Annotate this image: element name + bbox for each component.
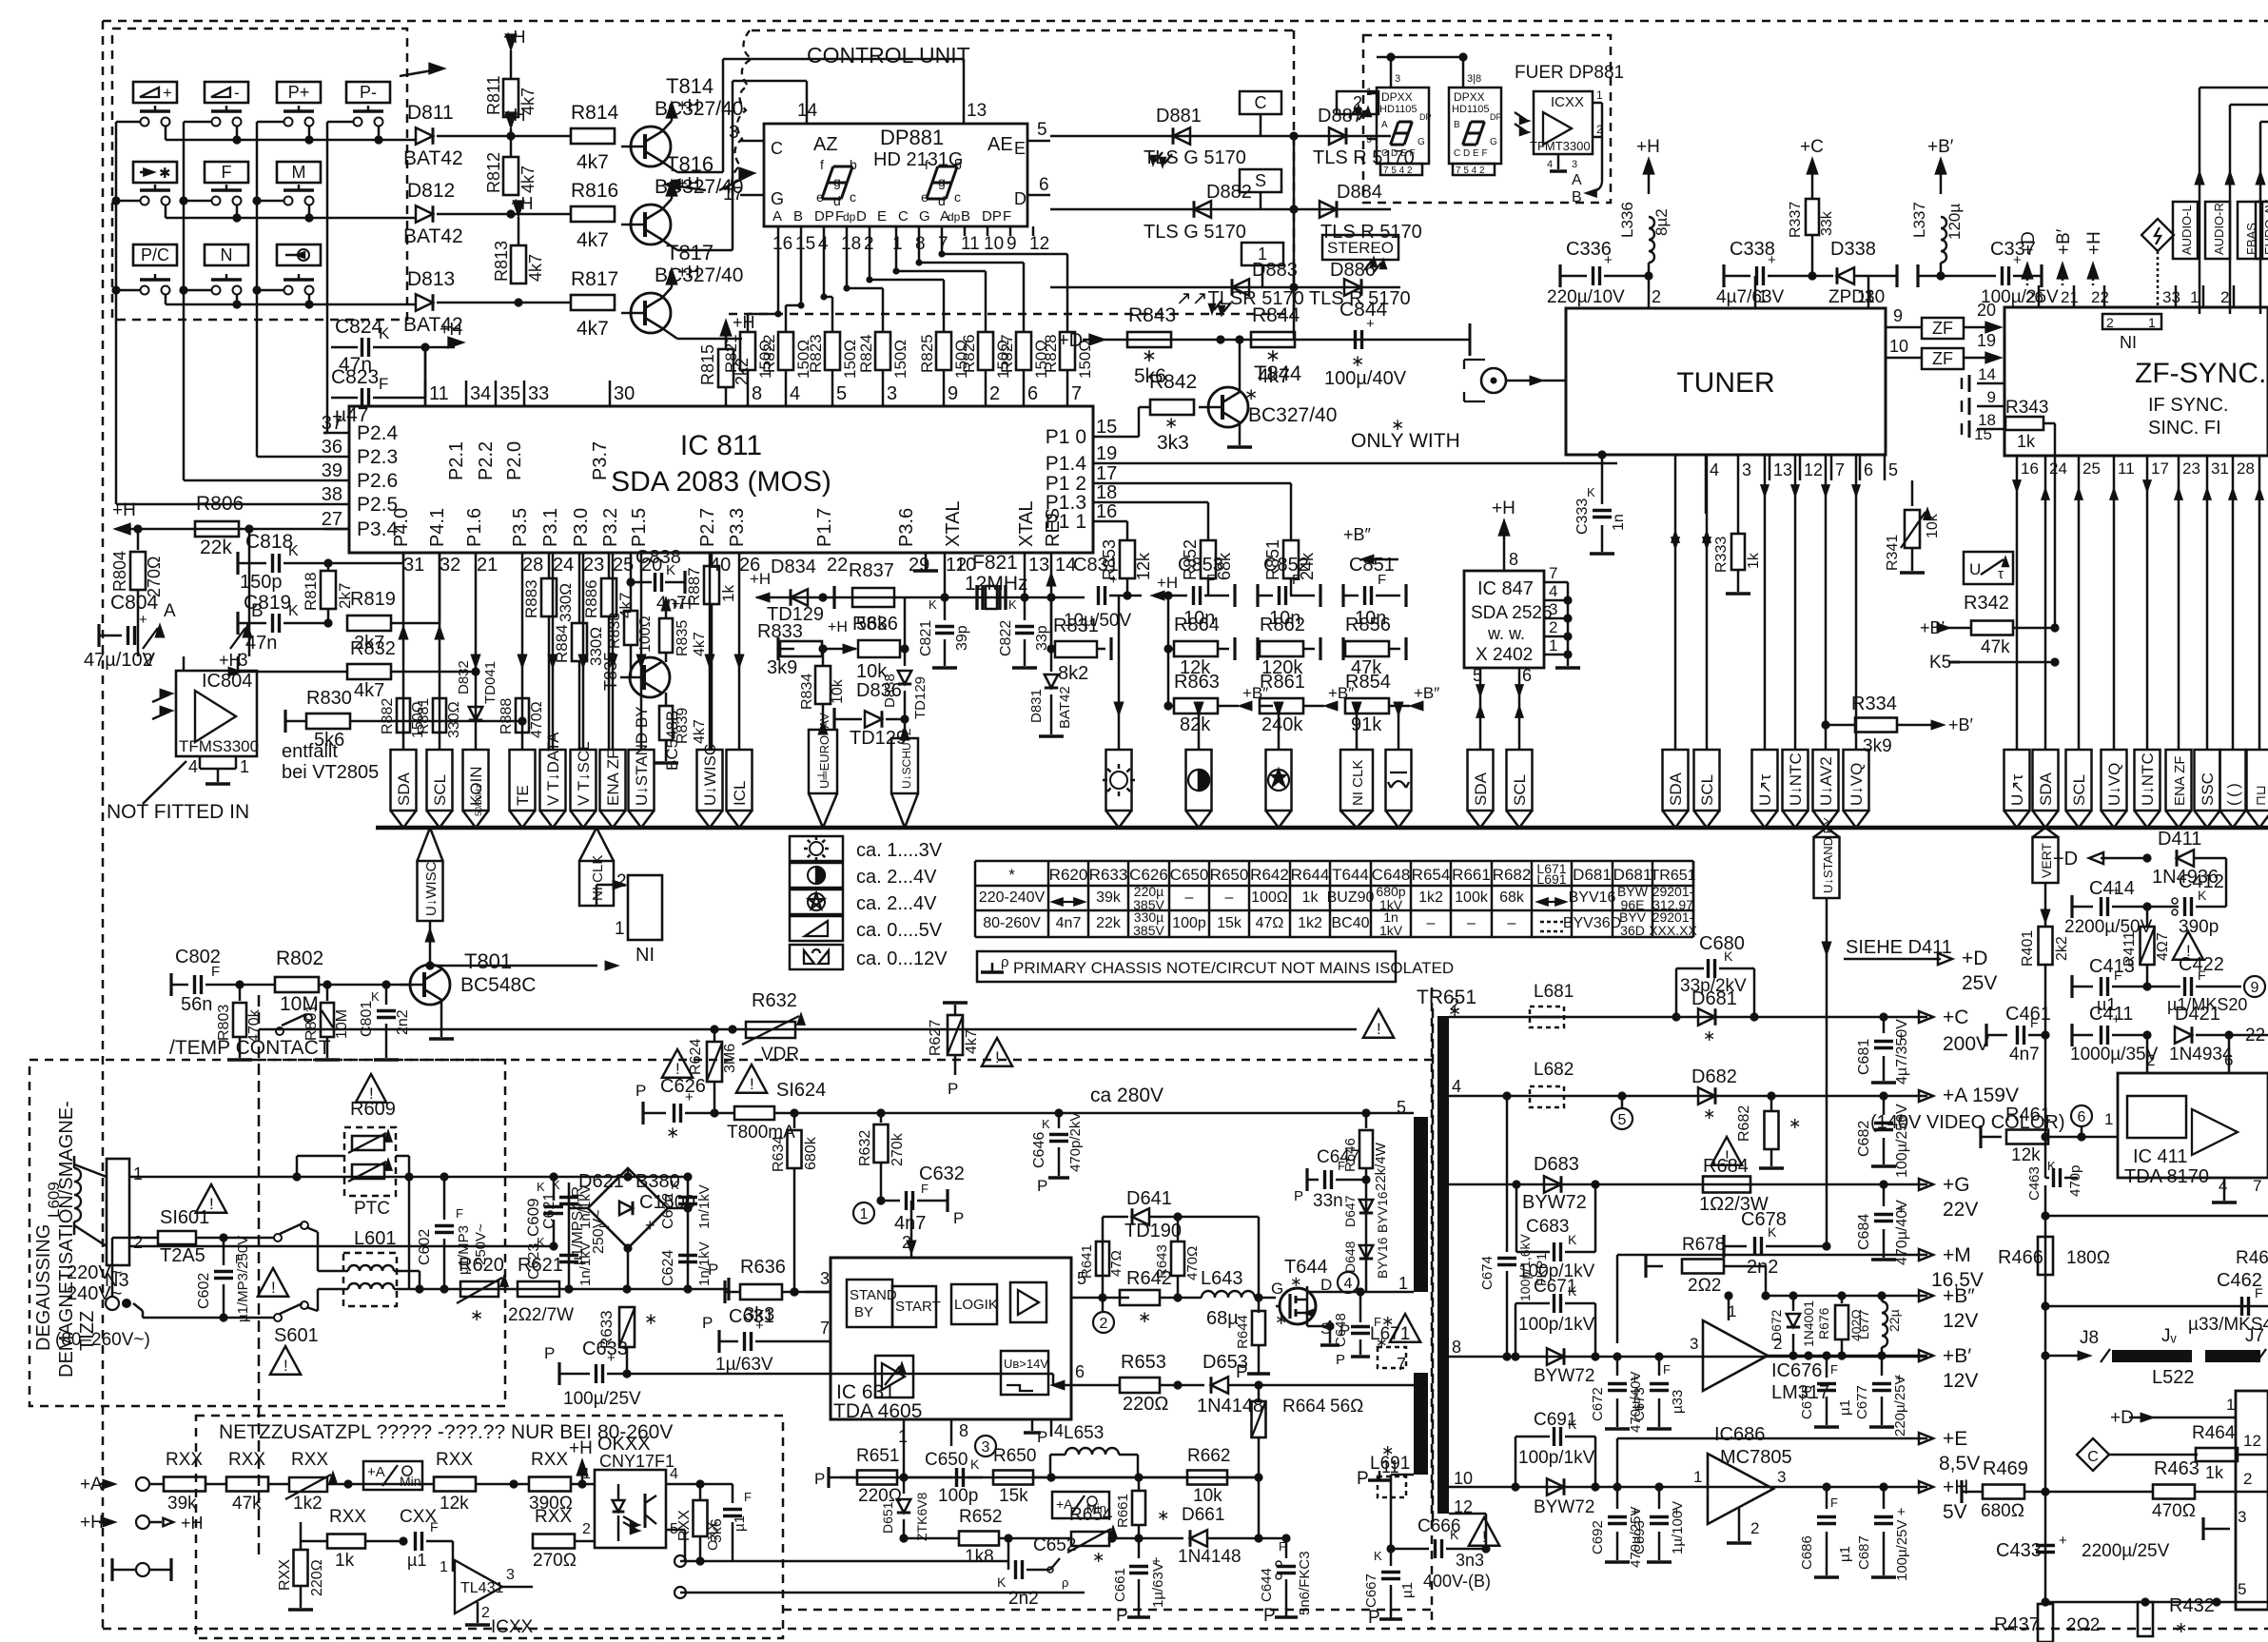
svg-text:P+: P+ <box>288 83 310 102</box>
svg-text:L677: L677 <box>1856 1310 1871 1339</box>
component table <box>975 860 1693 863</box>
svg-text:38: 38 <box>322 484 342 505</box>
DP881 pin 17 <box>740 194 764 197</box>
audio tags <box>2173 202 2198 259</box>
svg-text:P1 1: P1 1 <box>1046 511 1086 533</box>
svg-text:R342: R342 <box>1964 593 2009 614</box>
svg-text:9: 9 <box>1987 388 1996 406</box>
capacitor C682 <box>1879 1091 1887 1100</box>
resistor R684 <box>1711 1137 1742 1165</box>
svg-text:240k: 240k <box>1261 714 1303 735</box>
node tag SDA mid <box>1468 750 1494 811</box>
svg-text:BYV16: BYV16 <box>1569 889 1616 906</box>
svg-text:+H: +H <box>503 28 526 47</box>
svg-text:R676: R676 <box>1816 1307 1831 1339</box>
svg-text:C626: C626 <box>1129 866 1168 884</box>
svg-text:DP: DP <box>1490 112 1502 122</box>
svg-text:1: 1 <box>615 919 625 939</box>
svg-text:ZF: ZF <box>1932 349 1953 368</box>
svg-text:4n7: 4n7 <box>1056 915 1082 931</box>
svg-text:35: 35 <box>499 383 520 404</box>
svg-text:2200µ/25V: 2200µ/25V <box>2082 1541 2170 1561</box>
svg-text:✱: ✱ <box>159 166 171 182</box>
svg-text:32: 32 <box>440 555 460 576</box>
capacitor C821 <box>944 597 947 620</box>
svg-text:R634: R634 <box>771 1136 787 1172</box>
svg-text:2: 2 <box>1750 1519 1759 1537</box>
wire pin29 tag drop <box>904 719 907 734</box>
svg-text:K: K <box>537 1180 545 1194</box>
svg-text:B: B <box>961 208 970 225</box>
svg-text:R839: R839 <box>675 708 691 744</box>
netz dashed box <box>196 1416 783 1638</box>
box S <box>1240 169 1281 192</box>
svg-text:R661: R661 <box>1115 1494 1131 1528</box>
svg-text:X 2402: X 2402 <box>1476 645 1533 665</box>
svg-text:∗: ∗ <box>1381 1443 1394 1459</box>
capacitor C818 <box>238 562 266 565</box>
svg-text:2n2: 2n2 <box>395 1009 411 1035</box>
svg-text:L601: L601 <box>354 1228 397 1249</box>
svg-text:IC686: IC686 <box>1714 1424 1765 1445</box>
svg-text:11: 11 <box>2118 459 2135 478</box>
svg-text:RXX: RXX <box>531 1450 568 1470</box>
svg-text:∗: ∗ <box>1290 1274 1302 1290</box>
wire pin5 row <box>1103 1297 1129 1300</box>
svg-text:TR651: TR651 <box>1650 868 1695 884</box>
svg-text:R854: R854 <box>1345 672 1391 693</box>
svg-text:D651: D651 <box>880 1501 895 1534</box>
svg-text:L609: L609 <box>45 1182 63 1218</box>
node tag NI CLK below bus <box>579 861 614 906</box>
svg-text:R887: R887 <box>685 567 703 606</box>
display DP881 box <box>764 124 1027 226</box>
svg-text:D: D <box>1014 189 1026 208</box>
diode D812 <box>416 205 433 223</box>
svg-text:R632: R632 <box>857 1130 873 1166</box>
svg-text:10k: 10k <box>1193 1486 1222 1506</box>
svg-text:1N4934: 1N4934 <box>2169 1045 2233 1065</box>
resistor R856 <box>1341 637 1344 660</box>
svg-text:∗: ∗ <box>1142 346 1157 366</box>
svg-text:BYV16: BYV16 <box>1375 1237 1390 1279</box>
node tag U AV2 <box>1813 750 1839 811</box>
svg-text:5: 5 <box>1037 120 1047 140</box>
svg-text:B: B <box>793 208 803 225</box>
svg-text:100µ/40V: 100µ/40V <box>1324 368 1407 389</box>
svg-text:7: 7 <box>2253 1177 2261 1195</box>
diode D683 <box>1512 1180 1520 1188</box>
svg-text:R825: R825 <box>918 334 936 373</box>
svg-text:K: K <box>1042 1117 1050 1131</box>
button △- <box>205 82 248 103</box>
svg-text:22V: 22V <box>1943 1199 1978 1221</box>
svg-text:100Ω: 100Ω <box>1251 889 1288 906</box>
svg-text:470Ω: 470Ω <box>529 701 545 738</box>
svg-text:+B″: +B″ <box>1414 684 1439 702</box>
wire IC811 pin drop <box>475 553 478 750</box>
degaussing dashed box <box>29 1060 505 1406</box>
wire column A <box>1167 596 1170 706</box>
svg-text:L681: L681 <box>1534 982 1574 1002</box>
svg-text:∗: ∗ <box>1157 1508 1169 1524</box>
node tag U SCHUTZ <box>891 738 918 793</box>
svg-text:RXX: RXX <box>329 1507 366 1527</box>
svg-text:6: 6 <box>1027 383 1038 404</box>
resistor R853 <box>1120 540 1135 578</box>
svg-text:1N4148: 1N4148 <box>1197 1396 1263 1417</box>
svg-text:SINC. FI: SINC. FI <box>2148 418 2221 439</box>
svg-text:3k9: 3k9 <box>767 657 797 678</box>
svg-text:K: K <box>1450 1527 1459 1542</box>
svg-text:1: 1 <box>2148 315 2156 330</box>
svg-text:∗: ∗ <box>666 1124 679 1142</box>
svg-text:C853: C853 <box>1178 555 1223 576</box>
svg-text:IF SYNC.: IF SYNC. <box>2148 395 2228 416</box>
svg-text:5: 5 <box>836 383 847 404</box>
wire row 1684 <box>2045 1601 2268 1604</box>
svg-text:P1.7: P1.7 <box>814 508 835 547</box>
legend icon flower <box>790 889 843 914</box>
+H arrow netz <box>581 1470 584 1484</box>
svg-text:C646: C646 <box>1031 1132 1047 1168</box>
svg-text:9: 9 <box>1007 234 1017 254</box>
svg-text:µ1: µ1 <box>1399 1582 1416 1598</box>
svg-text:P: P <box>1357 1469 1369 1489</box>
svg-text:R833: R833 <box>757 621 803 642</box>
svg-text:12k: 12k <box>2011 1145 2041 1165</box>
resistor RXX 270 <box>533 1534 575 1549</box>
diode D691 <box>1511 1482 1519 1491</box>
svg-text:C687: C687 <box>1856 1535 1872 1570</box>
svg-text:Jᵥ: Jᵥ <box>2161 1326 2178 1346</box>
svg-text:D681: D681 <box>1613 866 1652 884</box>
wire +D row <box>1104 339 1470 342</box>
svg-text:R883: R883 <box>522 579 540 618</box>
svg-text:25: 25 <box>2082 459 2101 478</box>
table dashes icon <box>1540 921 1563 924</box>
wire temp contact row <box>259 1028 1357 1031</box>
svg-text:∗: ∗ <box>1351 352 1364 370</box>
svg-text:3: 3 <box>1777 1468 1786 1486</box>
node tag VERT below bus <box>2033 837 2059 883</box>
capacitor C853 <box>1168 595 1187 597</box>
node tag color icon <box>1266 750 1292 811</box>
NI box zf <box>2102 314 2161 329</box>
resistor R851 <box>1283 540 1299 578</box>
capacitor C621 C623 column <box>568 1183 571 1289</box>
svg-text:µ1: µ1 <box>1837 1399 1853 1416</box>
svg-text:P2.6: P2.6 <box>357 470 398 492</box>
svg-text:9: 9 <box>948 383 958 404</box>
resistor R862 <box>1256 637 1259 660</box>
svg-text:ZTK6V8: ZTK6V8 <box>914 1492 929 1541</box>
svg-text:g: g <box>938 174 946 189</box>
svg-text:F: F <box>921 1182 929 1196</box>
svg-text:U↓STAND BY: U↓STAND BY <box>633 706 651 806</box>
op-amp U1 IC811 SDA 2083 box <box>349 406 1093 553</box>
diode D883 <box>1232 279 1249 296</box>
wire row 1553 <box>840 1476 1258 1479</box>
svg-text:+H: +H <box>828 619 848 635</box>
svg-text:R861: R861 <box>1260 672 1305 693</box>
svg-text:L691: L691 <box>1536 871 1566 887</box>
svg-text:R818: R818 <box>302 572 320 611</box>
svg-text:µ33: µ33 <box>1670 1390 1686 1414</box>
resistor R825 <box>936 332 951 370</box>
svg-text:3M6: 3M6 <box>722 1044 738 1073</box>
svg-text:4: 4 <box>1344 1276 1353 1292</box>
svg-text:12: 12 <box>1804 460 1823 479</box>
capacitor C666 <box>1391 1548 1429 1551</box>
wire emitter <box>662 240 677 250</box>
wire IC811 pin drop <box>552 553 555 750</box>
isolation dashed line horizontal <box>252 1059 1432 1062</box>
capacitor C673 <box>1658 1357 1661 1376</box>
wire pin7 row <box>1391 1384 1414 1387</box>
svg-text:100k: 100k <box>1455 889 1489 906</box>
svg-text:G: G <box>1271 1280 1283 1298</box>
svg-text:τ: τ <box>1998 566 2004 582</box>
capacitor C824 <box>331 346 358 349</box>
svg-text:80-260V: 80-260V <box>983 915 1041 931</box>
svg-text:K: K <box>666 562 675 578</box>
A-Min box <box>363 1461 422 1490</box>
wire IC811 pin drop <box>612 553 615 750</box>
svg-text:22k/4W: 22k/4W <box>1373 1142 1389 1191</box>
capacitor C648 <box>1359 1292 1362 1322</box>
svg-text:!: ! <box>283 1357 288 1375</box>
svg-text:12k: 12k <box>1134 552 1153 580</box>
resistor RXX 5k6 <box>694 1500 708 1536</box>
svg-text:F: F <box>379 375 388 393</box>
svg-text:K: K <box>997 1574 1007 1590</box>
svg-text:TUNER: TUNER <box>1676 367 1774 399</box>
svg-text:15k: 15k <box>999 1486 1028 1506</box>
svg-text:P2.1: P2.1 <box>446 441 467 480</box>
wire degauss bottom <box>129 1245 554 1248</box>
svg-text:C644: C644 <box>1259 1568 1275 1602</box>
svg-text:ICXX: ICXX <box>1551 94 1584 110</box>
svg-text:15k: 15k <box>1217 915 1242 931</box>
wire switch right drop <box>165 126 167 140</box>
capacitor C414 <box>2072 906 2093 909</box>
svg-text:220µ/10V: 220µ/10V <box>1547 287 1625 307</box>
capacitor C602 column <box>443 1177 446 1220</box>
svg-text:6: 6 <box>2078 1109 2086 1125</box>
IC811 pin 36 P2.3 <box>323 456 349 459</box>
resistor R883 <box>541 578 557 616</box>
IC811 pin 39 P2.6 <box>323 479 349 482</box>
node tag ICL <box>727 750 753 811</box>
svg-text:∗: ∗ <box>1391 416 1404 434</box>
resistor R852 <box>1201 540 1216 578</box>
svg-text:F: F <box>2030 1015 2039 1030</box>
capacitor C693 <box>1658 1487 1661 1509</box>
svg-text:680k: 680k <box>803 1136 819 1170</box>
wire T844 emitter ground <box>1239 422 1242 445</box>
svg-text:8: 8 <box>915 234 926 254</box>
svg-text:C844: C844 <box>1339 299 1388 321</box>
resistor RXX 1k <box>327 1534 365 1549</box>
svg-text:13: 13 <box>967 101 987 121</box>
svg-text:2: 2 <box>582 1521 591 1537</box>
svg-text:240V~: 240V~ <box>67 1283 122 1304</box>
svg-text:C336: C336 <box>1566 239 1612 260</box>
wire T801 emitter <box>440 1000 443 1037</box>
svg-text:120µ: 120µ <box>1945 204 1964 240</box>
svg-text:F: F <box>2114 968 2122 983</box>
svg-text:4: 4 <box>1054 1421 1064 1440</box>
svg-text:33k: 33k <box>1819 210 1835 236</box>
svg-text:R650: R650 <box>1210 866 1249 884</box>
circled 9 <box>2244 976 2265 997</box>
svg-text:⊓⊔: ⊓⊔ <box>2253 785 2268 806</box>
capacitor C337 <box>1941 275 1996 278</box>
resistor R830 <box>285 720 306 723</box>
svg-text:U↓NTC: U↓NTC <box>2139 753 2157 806</box>
svg-text:22k: 22k <box>1096 915 1122 931</box>
svg-text:17: 17 <box>2151 459 2169 478</box>
resistor R469 <box>1962 1491 1983 1494</box>
right block box <box>2236 1391 2268 1610</box>
opamp TL431 <box>455 1560 502 1613</box>
svg-text:3|8: 3|8 <box>1467 73 1481 85</box>
push switch <box>212 118 221 127</box>
primary chassis note box <box>977 951 1396 982</box>
svg-text:+: + <box>645 1216 655 1235</box>
svg-text:R333: R333 <box>1713 537 1730 573</box>
resistor R884 <box>572 623 587 661</box>
svg-text:1000µ/35V: 1000µ/35V <box>2070 1045 2159 1065</box>
wire keyboard column B <box>183 122 186 480</box>
svg-text:R678: R678 <box>1682 1235 1725 1255</box>
svg-text:AZ: AZ <box>813 134 838 155</box>
diode D641 <box>1132 1208 1149 1225</box>
wire switch left <box>116 289 140 292</box>
svg-text:K: K <box>1724 948 1733 964</box>
capacitor C609 <box>553 1177 556 1201</box>
svg-text:∗: ∗ <box>1703 1106 1715 1123</box>
svg-text:P: P <box>1368 1608 1380 1628</box>
svg-text:330Ω: 330Ω <box>557 583 575 622</box>
svg-text:2: 2 <box>2243 1470 2252 1488</box>
box C <box>1240 91 1281 114</box>
capacitor C686 <box>1826 1487 1828 1509</box>
svg-text:1N4001: 1N4001 <box>1801 1300 1816 1347</box>
svg-text:SI624: SI624 <box>776 1080 826 1101</box>
resistor R812 <box>503 157 518 195</box>
svg-text:R814: R814 <box>571 102 619 124</box>
svg-text:e: e <box>921 189 929 205</box>
svg-text:XTAL: XTAL <box>1016 500 1037 547</box>
box STEREO <box>1322 235 1398 260</box>
svg-text:3: 3 <box>1572 159 1577 170</box>
diode D831 <box>1050 597 1053 649</box>
svg-text:1k: 1k <box>2205 1463 2224 1482</box>
svg-text:R337: R337 <box>1788 202 1804 238</box>
svg-text:ρ: ρ <box>1062 1575 1068 1590</box>
svg-text:8: 8 <box>959 1421 968 1440</box>
wire C633 row right <box>627 1373 1053 1376</box>
resistor R646 <box>1361 1108 1370 1117</box>
svg-text:L336: L336 <box>1618 202 1636 238</box>
svg-text:F: F <box>835 208 844 225</box>
svg-text:P: P <box>1116 1606 1128 1626</box>
svg-text:Min: Min <box>400 1474 421 1489</box>
svg-text:R823: R823 <box>807 334 825 373</box>
IC804 pins <box>199 756 202 769</box>
IC631 amp block <box>1010 1282 1046 1322</box>
wire switch left <box>184 121 211 124</box>
wire keyboard column D <box>326 122 329 433</box>
wire tuner control <box>1794 456 1797 750</box>
svg-text:K: K <box>671 1178 679 1192</box>
capacitor C678 <box>1724 1245 1747 1248</box>
resistor R835 <box>659 618 673 653</box>
+H output <box>1919 1481 1933 1493</box>
svg-text:4µ7/350V: 4µ7/350V <box>1894 1019 1910 1085</box>
svg-text:+H: +H <box>569 1438 593 1458</box>
wire tuner i2c <box>1706 456 1709 750</box>
svg-text:BAT42: BAT42 <box>1057 686 1073 729</box>
wire display drive 2 <box>704 249 733 252</box>
wire tuner i2c <box>1674 456 1677 750</box>
svg-text:F: F <box>1378 572 1386 588</box>
svg-text:C677: C677 <box>1854 1385 1870 1419</box>
resistor R882 <box>397 698 410 733</box>
diode D661 <box>1139 1537 1183 1540</box>
svg-text:S601: S601 <box>274 1325 319 1346</box>
wire pin17 to R851 <box>1093 482 1291 485</box>
node tag SDA zf <box>2033 750 2059 811</box>
svg-text:D886: D886 <box>1330 260 1376 281</box>
svg-text:100µ/25V: 100µ/25V <box>1894 1519 1910 1581</box>
wire switch right drop <box>236 126 239 140</box>
svg-text:C: C <box>898 208 909 225</box>
U T box <box>1964 552 2013 584</box>
opamp IC676 LM317 <box>1703 1320 1768 1391</box>
node tag U WISC below bus <box>418 861 443 921</box>
svg-text:2: 2 <box>2106 315 2114 330</box>
svg-text:BYV36D: BYV36D <box>1563 915 1621 931</box>
node tag contrast icon <box>1186 750 1212 811</box>
resistor R806 <box>195 521 239 537</box>
svg-text:4k7: 4k7 <box>692 719 708 744</box>
svg-text:F: F <box>1830 1362 1838 1377</box>
svg-text:U↓WISC: U↓WISC <box>423 861 440 916</box>
legend icon half <box>790 863 843 888</box>
svg-text:E: E <box>877 208 887 225</box>
svg-text:11: 11 <box>961 234 980 254</box>
capacitor C333 <box>1601 455 1604 504</box>
node tag SCL tuner <box>1694 750 1720 811</box>
svg-text:c: c <box>954 189 961 205</box>
svg-text:D836: D836 <box>856 680 902 701</box>
svg-text:12V: 12V <box>1943 1310 1978 1332</box>
svg-text:U↓SCHUTZ: U↓SCHUTZ <box>900 729 913 789</box>
wire opto right <box>666 1483 700 1486</box>
button P+ <box>277 82 321 103</box>
svg-text:28: 28 <box>2237 459 2255 478</box>
svg-text:C801: C801 <box>359 1001 375 1037</box>
svg-text:21: 21 <box>477 555 498 576</box>
node tag U NTC tuner <box>1783 750 1809 811</box>
resistor R864 <box>1168 648 1174 651</box>
svg-text:G: G <box>1417 137 1425 147</box>
resistor R822 <box>778 332 793 370</box>
svg-text:19: 19 <box>1096 443 1117 464</box>
